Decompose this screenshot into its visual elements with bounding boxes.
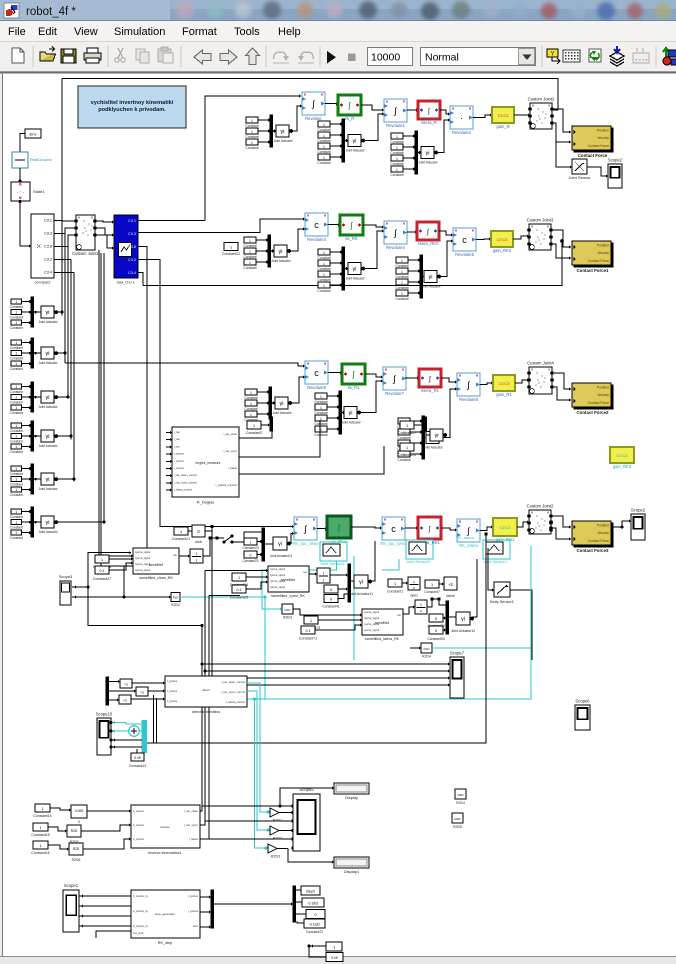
svg-text:Constant16: Constant16 <box>31 851 49 855</box>
wires mid cluster consts to mux <box>257 541 262 543</box>
svg-text:Contact Force: Contact Force <box>588 539 609 543</box>
svg-text:Position: Position <box>597 386 609 390</box>
svg-text:C3∙C3: C3∙C3 <box>617 454 628 458</box>
constant r3g3 const2 <box>398 440 410 446</box>
svg-text:Joint Sensor1: Joint Sensor1 <box>483 559 508 564</box>
joint actuator lg3 <box>41 430 54 442</box>
block Revolute <box>302 92 325 115</box>
dk wires mux-pre <box>109 681 120 683</box>
svg-text:R2D6: R2D6 <box>72 858 81 862</box>
svg-text:RK_latera: RK_latera <box>456 535 475 540</box>
svg-text:Revolute: Revolute <box>305 116 322 121</box>
wire lg0 c0 <box>22 301 32 303</box>
svg-text:latere: latere <box>446 594 455 598</box>
block ssera_R <box>418 101 440 119</box>
svg-text:0: 0 <box>330 598 332 602</box>
svg-text:0.1: 0.1 <box>100 569 105 573</box>
svg-text:gain_R: gain_R <box>496 124 509 129</box>
svg-text:direct: direct <box>202 688 210 692</box>
svg-text:Contact Force1: Contact Force1 <box>577 268 610 273</box>
wire to display1 <box>288 849 334 863</box>
svg-text:Scope2: Scope2 <box>631 508 646 513</box>
subsystem R_Duglas <box>172 427 239 497</box>
block Custom Joint4 <box>529 367 552 394</box>
svg-text:1: 1 <box>413 580 415 584</box>
svg-text:-0.1332: -0.1332 <box>309 923 320 927</box>
row2 g2 wire <box>364 231 385 269</box>
svg-text:1: 1 <box>230 246 232 250</box>
toolbar sep <box>541 46 543 67</box>
cyan wire JS2 drop to R2D3 <box>262 561 337 609</box>
block State1 <box>11 182 30 201</box>
svg-text:Joint Actuator: Joint Actuator <box>345 277 365 281</box>
wire lg3 c0 <box>22 425 32 427</box>
block Constant16i <box>33 841 48 849</box>
mux cm2 <box>424 417 427 431</box>
wire lg5 c0 <box>22 511 32 513</box>
block Revolute1 <box>384 99 407 122</box>
svg-text:tela_O1+1: tela_O1+1 <box>117 281 135 285</box>
block R2D6 <box>69 843 83 855</box>
svg-text:b_tyazva_tq: b_tyazva_tq <box>133 894 148 898</box>
block Constant23m <box>244 538 257 545</box>
svg-text:R2D: R2D <box>423 647 430 651</box>
row2 wire red-rev5 <box>439 231 453 235</box>
block Revolute7 <box>383 367 406 390</box>
svg-text:Constant: Constant <box>10 450 23 454</box>
block Scope6 <box>575 705 590 730</box>
svg-text:Constant: Constant <box>244 396 257 400</box>
constant r2g3 const0 <box>396 257 408 263</box>
block Revolute8 <box>457 373 480 396</box>
svg-text:Contact Force: Contact Force <box>588 401 609 405</box>
svg-text:Joint Actuator: Joint Actuator <box>38 361 58 365</box>
svg-text:t_latera_current: t_latera_current <box>174 488 193 492</box>
toolbar sim time field <box>368 48 413 66</box>
wires consts-mux2 <box>296 889 301 891</box>
svg-text:Constant: Constant <box>395 264 408 268</box>
svg-text:Constant: Constant <box>10 483 23 487</box>
svg-text:samefilled_clean_RK: samefilled_clean_RK <box>139 576 173 580</box>
svg-text:Constant: Constant <box>397 458 410 462</box>
svg-text:Normal: Normal <box>425 52 459 64</box>
wire const27a <box>414 424 424 426</box>
scope7 input wires <box>202 663 450 665</box>
svg-text:-0.1831: -0.1831 <box>308 902 319 906</box>
wire realground-state <box>19 168 21 182</box>
mux r3g3 <box>422 416 425 459</box>
svg-text:robot_4f *: robot_4f * <box>26 6 76 18</box>
block 1/z latera <box>415 600 427 614</box>
svg-text:γi: γi <box>429 275 433 281</box>
svg-text:Constant: Constant <box>245 135 258 139</box>
block R2D10 <box>455 789 466 799</box>
svg-text:Constant: Constant <box>390 162 403 166</box>
toolbar icon library <box>563 50 580 62</box>
window bottom strip <box>0 957 676 964</box>
svg-text:z: z <box>420 609 422 613</box>
svg-text:t_tau_vyrez: t_tau_vyrez <box>184 823 199 827</box>
svg-text:ssera_R: ssera_R <box>421 120 437 125</box>
constant lg2 const0 <box>11 384 22 389</box>
svg-text:1: 1 <box>15 362 17 366</box>
wire const7-latere <box>439 583 444 585</box>
mux r3g1 <box>269 387 272 419</box>
block Constant15i <box>33 823 48 831</box>
svg-text:C3.8: C3.8 <box>128 245 136 249</box>
constant r3g1 const1 <box>245 400 257 406</box>
wire jointsensor-scope2 <box>587 167 608 176</box>
wire CJ1 to tela (3 lines) <box>95 221 114 222</box>
constant lg0 const0 <box>11 299 22 304</box>
wire ja11 up to Revolute9 <box>289 534 294 544</box>
svg-text:Constant: Constant <box>10 493 23 497</box>
constant r2g1 const0 <box>244 237 256 243</box>
row2 g3 wire <box>440 241 454 277</box>
svg-text:1: 1 <box>401 259 403 263</box>
svg-text:t_tyazva: t_tyazva <box>174 459 184 463</box>
wire cj2 down to joint sensor <box>556 127 572 167</box>
svg-text:γi: γi <box>46 477 50 483</box>
svg-text:Constant41: Constant41 <box>322 605 339 609</box>
wire r3g3 c3 <box>410 453 422 455</box>
wire r2g1 c2 <box>256 261 268 263</box>
wire lg3 mux-out <box>33 435 41 437</box>
svg-text:Scope2: Scope2 <box>608 158 623 163</box>
row4 wire gain-cj5 <box>517 522 529 527</box>
svg-text:Custom Joint3: Custom Joint3 <box>527 218 554 223</box>
svg-text:R2D5: R2D5 <box>453 825 462 829</box>
row2 wire gain-cj3 <box>513 236 529 239</box>
svg-text:Constant: Constant <box>314 433 327 437</box>
row1 wire rev1-red <box>407 109 418 111</box>
svg-text:Contact Force: Contact Force <box>588 259 609 263</box>
joint actuator r3g2 <box>344 407 357 419</box>
svg-text:C3.3: C3.3 <box>44 232 52 236</box>
mux r1g1 <box>270 115 273 147</box>
block ss_R1 <box>342 364 365 384</box>
svg-text:Constant: Constant <box>317 278 330 282</box>
svg-text:Constant: Constant <box>317 161 330 165</box>
svg-text:Constant: Constant <box>10 429 23 433</box>
wire row1 feedback loop <box>205 96 301 221</box>
svg-text:1: 1 <box>250 391 252 395</box>
wire c16-r2d6 <box>48 845 69 849</box>
joint actuator jal <box>456 612 470 625</box>
block R2D4 <box>421 643 432 653</box>
wires rkstep-scope1 <box>79 895 131 897</box>
svg-text:C3.1: C3.1 <box>128 219 136 223</box>
wire r1g1 c0 <box>258 119 270 121</box>
svg-text:Constant23: Constant23 <box>242 546 259 550</box>
row3 g3 wire <box>442 389 458 438</box>
svg-text:γi: γi <box>46 434 50 440</box>
wire tela outputs <box>138 220 205 222</box>
svg-text:1: 1 <box>251 141 253 145</box>
toolbar icon debug <box>547 49 558 57</box>
wire lg5 c2 <box>22 532 32 534</box>
wire lg4 c1 <box>22 478 32 480</box>
svg-text:γi: γi <box>46 395 50 401</box>
svg-text:ssera_R1: ssera_R1 <box>421 388 440 393</box>
svg-text:t_tau_vyrez: t_tau_vyrez <box>223 449 237 453</box>
mux lg1 <box>31 338 34 368</box>
constant lg0 const1 <box>11 310 22 315</box>
svg-text:b_tyazva_tq: b_tyazva_tq <box>133 909 148 913</box>
wire R2D3 out <box>293 609 362 615</box>
svg-text:Constant25: Constant25 <box>230 596 248 600</box>
block Constant40 <box>324 585 338 593</box>
svg-text:Constant15: Constant15 <box>31 833 49 837</box>
block Constant41 <box>324 595 338 603</box>
row4 joint sensor selected 1 <box>320 542 347 561</box>
row2 wire rev5-gain <box>476 238 491 241</box>
wire r1g3 mux-out <box>417 152 421 154</box>
wire lg0 mux-out <box>33 311 41 313</box>
svg-text:Constant20: Constant20 <box>398 453 416 457</box>
svg-text:ss_R1: ss_R1 <box>348 385 361 390</box>
svg-text:Contact Force3: Contact Force3 <box>577 548 610 553</box>
svg-text:1: 1 <box>396 135 398 139</box>
svg-text:out_taza: out_taza <box>133 931 144 935</box>
svg-text:1: 1 <box>15 300 17 304</box>
toolbar mode dropdown <box>421 48 536 66</box>
block Body Sensor1 <box>494 582 510 597</box>
toolbar icon play <box>327 51 336 64</box>
wire lg1 c1 <box>22 352 32 354</box>
wire trunk x205 top to vyrez input <box>205 570 268 572</box>
svg-text:Joint Sensor2: Joint Sensor2 <box>320 561 345 566</box>
block ss_RK <box>340 215 363 235</box>
block latere gain <box>444 577 457 590</box>
svg-text:R2D3: R2D3 <box>283 616 292 620</box>
joint actuator jac20 <box>430 429 443 441</box>
svg-text:1: 1 <box>15 351 17 355</box>
svg-text:inverse kinematics1: inverse kinematics1 <box>148 851 181 855</box>
svg-text:R2D4: R2D4 <box>422 655 431 659</box>
mux mc <box>262 528 265 561</box>
svg-text:1: 1 <box>406 446 408 450</box>
svg-text:1: 1 <box>15 385 17 389</box>
svg-text:Joint Sensor: Joint Sensor <box>568 175 591 180</box>
block Constant21 <box>174 527 188 535</box>
dk outputs cyan <box>247 683 270 812</box>
svg-text:Constant: Constant <box>395 297 408 301</box>
svg-text:10000: 10000 <box>371 52 400 64</box>
constant r1g3 const0 <box>391 133 403 139</box>
svg-text:1: 1 <box>253 424 255 428</box>
block Contact Force <box>574 128 613 152</box>
svg-text:R2D4: R2D4 <box>456 801 465 805</box>
svg-text:Scope3: Scope3 <box>59 574 73 579</box>
svg-text:R2D: R2D <box>457 793 464 797</box>
svg-text:1: 1 <box>15 406 17 410</box>
constant r1g1 const0 <box>246 117 258 123</box>
left group 2 out wire <box>57 352 66 354</box>
svg-text:z: z <box>323 579 325 583</box>
wire to R2D input <box>124 596 171 598</box>
block gain_RK2 <box>491 231 513 247</box>
block Scope2 <box>608 164 622 188</box>
wire r3g1 c2 <box>257 413 269 415</box>
cyan wire R2D4 right <box>432 647 531 649</box>
svg-text:1: 1 <box>249 250 251 254</box>
toolbar icon redo (disabled) <box>301 52 313 59</box>
wire latera-1/z <box>403 607 415 614</box>
constant r3g1 const0 <box>245 389 257 395</box>
svg-text:t_tau: t_tau <box>174 444 181 448</box>
wire into R2D4 <box>410 647 421 649</box>
block Revolute11 <box>457 519 480 542</box>
toolbar sep <box>180 46 182 67</box>
wire c15-r2d5 <box>48 827 67 831</box>
wires consts-latera <box>318 619 362 621</box>
wire lg0 c1 <box>22 311 32 313</box>
subsystem samefilled_clean_RK <box>133 548 179 574</box>
svg-text:Constant1: Constant1 <box>387 590 403 594</box>
svg-text:1: 1 <box>249 261 251 265</box>
toolbar icon forward arrow <box>220 50 237 64</box>
cyan wire JS2 long drop <box>353 556 355 660</box>
wire r1g2 c0 <box>330 123 342 125</box>
wire clean-1/z <box>179 555 190 557</box>
row1 g1 wire to revolute <box>292 106 303 131</box>
constant r3g2 const2 <box>315 415 327 421</box>
wire r1g3 c1 <box>403 146 415 148</box>
row3 wire rev6-green <box>328 372 342 374</box>
svg-text:1: 1 <box>420 603 422 607</box>
row4 wire rev10-red <box>405 527 418 529</box>
block Constant27b <box>95 566 109 574</box>
svg-text:Constant: Constant <box>314 411 327 415</box>
wire r1g1 mux-out <box>272 130 276 132</box>
svg-text:0: 0 <box>315 913 317 917</box>
svg-text:1: 1 <box>406 424 408 428</box>
svg-text:direct kinematics: direct kinematics <box>192 710 220 714</box>
wire contyar2 out lower <box>54 259 71 261</box>
svg-text:Constant: Constant <box>10 367 23 371</box>
wire r1g3 c3 <box>403 168 415 170</box>
svg-text:1: 1 <box>15 531 17 535</box>
big cyan loop right <box>247 546 531 699</box>
toolbar sep <box>32 46 34 67</box>
svg-text:1: 1 <box>15 395 17 399</box>
row1 wire rev2-gain <box>473 115 492 118</box>
svg-text:Revolute7: Revolute7 <box>385 391 405 396</box>
svg-text:c: c <box>462 235 467 245</box>
annotation note <box>78 86 186 128</box>
wire c14-x <box>50 808 71 810</box>
block R2D5 <box>67 825 81 837</box>
svg-text:1: 1 <box>15 477 17 481</box>
svg-text:t_latera: t_latera <box>189 837 199 841</box>
toolbar icon stop (disabled) <box>348 54 356 62</box>
constant r1g3 const1 <box>391 144 403 150</box>
svg-text:Revolute2: Revolute2 <box>452 130 472 135</box>
svg-text:t_latera: t_latera <box>228 466 237 470</box>
svg-text:gain_RK2: gain_RK2 <box>493 248 512 253</box>
svg-text:R2D: R2D <box>173 596 179 600</box>
wire r2g2 c2 <box>330 273 342 275</box>
svg-text:Revolute5: Revolute5 <box>455 252 475 257</box>
svg-text:RK_tau_vyrez: RK_tau_vyrez <box>380 541 406 546</box>
svg-text:1: 1 <box>39 844 41 848</box>
svg-text:Constant: Constant <box>10 472 23 476</box>
row2 wire rev3-green <box>328 224 340 226</box>
left group 5 out wire <box>57 478 75 480</box>
row1 wires cj2-contactforce <box>552 109 571 132</box>
svg-text:1: 1 <box>15 310 17 314</box>
svg-text:b_tyazva_tq: b_tyazva_tq <box>133 924 148 928</box>
svg-text:Constant: Constant <box>390 140 403 144</box>
wire into body sensor <box>488 560 494 590</box>
wire lg3 c2 <box>22 446 32 448</box>
constant r2g2 const3 <box>318 282 330 288</box>
wire r2g3 c2 <box>408 281 420 283</box>
row3 g2 wire <box>360 381 384 413</box>
constant r1g3 const3 <box>391 166 403 172</box>
svg-text:t_latera_current: t_latera_current <box>226 700 245 704</box>
wire r3g1 mux-out <box>271 402 275 404</box>
svg-text:View: View <box>74 26 98 38</box>
constant r3g3 const3 <box>398 451 410 457</box>
wire state1-contyar <box>20 201 31 246</box>
svg-text:γi: γi <box>349 411 353 417</box>
constant r2g1 const2 <box>244 259 256 265</box>
mux r2g3 <box>420 255 423 298</box>
wire r3g3 c1 <box>410 431 422 433</box>
wire ja vyrez up to row4 <box>370 541 375 581</box>
wire r1g3 c2 <box>403 157 415 159</box>
subsystem direct kinematics <box>165 676 247 707</box>
svg-text:γi: γi <box>280 401 284 407</box>
svg-text:t_tyazva: t_tyazva <box>174 466 184 470</box>
wire 1/z out <box>203 538 210 556</box>
canvas left border <box>0 74 2 957</box>
wire trunk to clean_RK in1 and scope3 <box>88 553 202 626</box>
wire trunk x209 top horizontal <box>209 595 240 597</box>
constant lg1 const0 <box>11 340 22 345</box>
svg-text:1: 1 <box>394 582 396 586</box>
title bar <box>0 0 676 21</box>
row4 joint sensor selected 3 <box>483 540 510 559</box>
svg-text:Constant: Constant <box>244 407 257 411</box>
svg-text:Joint Actuator: Joint Actuator <box>423 446 443 450</box>
block vyrez1z <box>408 577 420 590</box>
svg-text:γi: γi <box>46 310 50 316</box>
block R2D3 <box>282 604 293 614</box>
toolbar icon save <box>61 49 76 63</box>
mux lg3 <box>31 421 34 451</box>
mux cm1 <box>270 417 273 431</box>
constant lg5 const1 <box>11 520 22 525</box>
svg-text:1: 1 <box>251 119 253 123</box>
toolbar icon undo (disabled) <box>274 52 286 59</box>
constant lg1 const2 <box>11 361 22 366</box>
mux rkm2 <box>293 886 296 922</box>
mux rkm <box>211 890 214 928</box>
constant r2g1 const1 <box>244 248 256 254</box>
svg-text:Revolute6: Revolute6 <box>307 385 327 390</box>
svg-text:Position: Position <box>597 129 609 133</box>
svg-text:1: 1 <box>323 572 325 576</box>
mux dkm <box>106 677 109 705</box>
svg-text:ss_RK: ss_RK <box>345 236 358 241</box>
R_Duglas input stubs <box>166 432 172 434</box>
wire r3g3 mux-out <box>424 437 426 439</box>
constant r1g1 const2 <box>246 139 258 145</box>
svg-text:Constant: Constant <box>10 326 23 330</box>
